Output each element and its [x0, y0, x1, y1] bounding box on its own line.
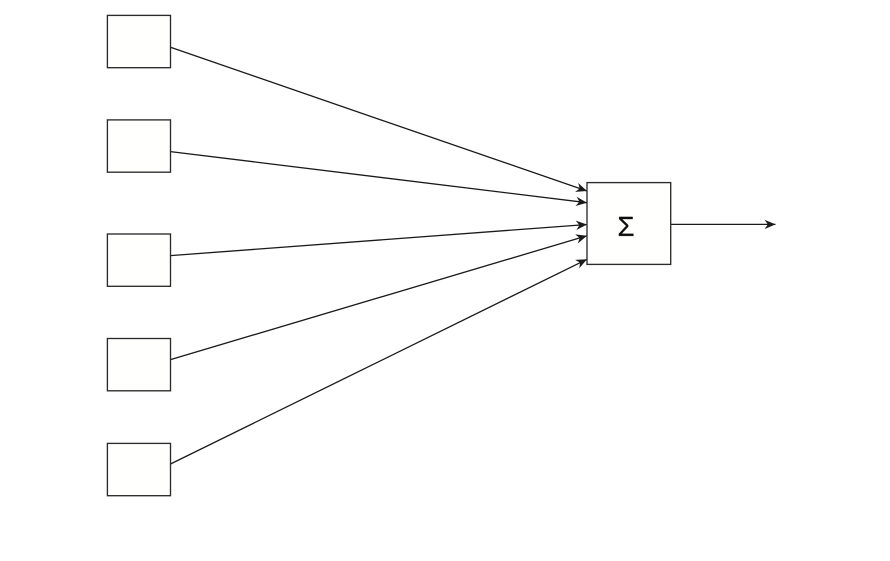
input box 2	[107, 120, 170, 172]
summation label	[619, 217, 634, 236]
input box 1	[107, 15, 170, 67]
wire input 2 to summation	[171, 152, 588, 203]
summation box	[587, 183, 671, 265]
input box 5	[107, 443, 170, 495]
wire input 3 to summation	[171, 225, 588, 256]
wire input 1 to summation	[171, 47, 588, 191]
wire input 5 to summation	[171, 259, 588, 464]
input box 4	[107, 339, 170, 391]
wire input 4 to summation	[171, 236, 588, 360]
wire output arrow	[671, 223, 776, 225]
input box 3	[107, 234, 170, 286]
